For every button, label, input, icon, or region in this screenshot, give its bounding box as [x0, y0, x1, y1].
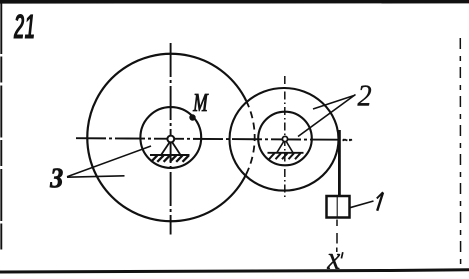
wheel 2 outer rim: [230, 88, 339, 191]
leader lines of label 3: [67, 146, 151, 177]
point M dot: [189, 114, 195, 120]
leader line of label 1: [350, 201, 374, 208]
frame left border: [0, 2, 2, 251]
weight block 1: [327, 196, 350, 218]
wheel 3 inner hub circle: [140, 107, 201, 168]
figure number 21: [14, 14, 35, 39]
frame right border: [459, 38, 461, 266]
frame top border: [0, 0, 469, 4]
pivot bearing of wheel 3: [150, 136, 190, 162]
leader lines of label 2: [298, 95, 356, 137]
pivot bearing of wheel 2: [268, 136, 304, 159]
vertical centerline wheel 3: [170, 43, 172, 235]
vertical centerline wheel 2: [284, 76, 286, 198]
horizontal centerline through both wheels: [76, 138, 353, 140]
label x (axis): [327, 252, 343, 269]
wheel 3 outer rim hidden arc (dashed inside wheel 2): [246, 101, 254, 174]
wheel 2 inner hub circle: [258, 112, 312, 166]
frame bottom border: [0, 270, 469, 272]
dashed axis x below weight: [336, 220, 338, 253]
string from wheel 2 rim to weight: [338, 130, 341, 197]
label 3: [50, 169, 63, 188]
label M: [193, 94, 209, 111]
label 1: [377, 192, 383, 211]
label 2: [358, 86, 372, 106]
wheel 3 outer rim (solid part): [87, 54, 246, 221]
